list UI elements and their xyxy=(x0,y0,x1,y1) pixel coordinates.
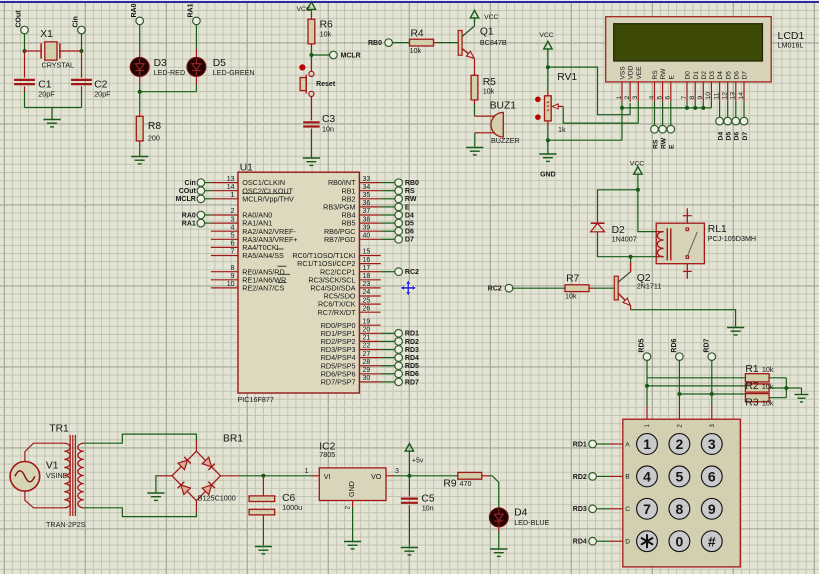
svg-text:2: 2 xyxy=(624,96,631,100)
svg-text:D4: D4 xyxy=(405,212,414,219)
wire LCD VEE down xyxy=(637,102,639,123)
U1 SS overline xyxy=(276,248,283,250)
svg-text:MCLR: MCLR xyxy=(341,53,361,60)
terminal D5 xyxy=(724,117,732,125)
U1 pin 14 OSC2/CLKOUT xyxy=(211,190,238,192)
wire wiper to LCD VEE xyxy=(563,106,638,123)
svg-text:33: 33 xyxy=(363,176,371,183)
terminal E xyxy=(667,125,675,133)
svg-text:10k: 10k xyxy=(762,365,774,374)
wire to terminal RD6 xyxy=(381,373,396,375)
wire Q1 emitter to R5 xyxy=(474,59,476,76)
U1 pin 34 RB1 xyxy=(359,190,380,192)
source V1 VSINE xyxy=(10,462,40,492)
capacitor C3 xyxy=(310,119,312,120)
svg-text:PCJ-105D3MH: PCJ-105D3MH xyxy=(708,234,756,243)
ground Q2 emitter xyxy=(727,327,744,329)
terminal D5 (U1 right) xyxy=(395,219,403,227)
wire LCD D7 to terminal xyxy=(743,102,745,118)
svg-text:D5: D5 xyxy=(405,221,414,228)
svg-text:20pF: 20pF xyxy=(94,90,111,99)
svg-text:R7: R7 xyxy=(566,274,579,285)
cursor crosshair xyxy=(402,281,415,294)
ground crystal xyxy=(43,119,60,121)
resistor R1 xyxy=(745,374,769,382)
svg-text:D7: D7 xyxy=(742,71,749,80)
terminal RA0 xyxy=(136,17,144,25)
svg-text:6: 6 xyxy=(231,241,235,248)
capacitor C1 xyxy=(24,51,26,78)
node B coil bottom junction xyxy=(629,255,633,259)
svg-text:R8: R8 xyxy=(148,121,161,132)
wire R1-R3 tie xyxy=(769,377,786,379)
LCD VSS wire down xyxy=(621,102,623,140)
terminal RD7 xyxy=(708,353,716,361)
terminal RC2 (relay drive) xyxy=(505,284,513,292)
svg-text:U1: U1 xyxy=(240,162,253,173)
svg-text:39: 39 xyxy=(363,224,371,231)
U1 pin 27 RD4/PSP4 xyxy=(359,357,380,359)
svg-text:D6: D6 xyxy=(733,71,740,80)
terminal Cin xyxy=(78,26,86,34)
svg-text:13: 13 xyxy=(730,92,737,100)
keypad button 3 xyxy=(701,434,722,455)
svg-text:3: 3 xyxy=(632,96,639,100)
IC2 pin 3 xyxy=(386,475,394,477)
svg-text:RW: RW xyxy=(660,137,667,149)
svg-text:18: 18 xyxy=(363,273,371,280)
diode D2 1N4007 xyxy=(597,220,599,224)
U1 pin 33 RB0/INT xyxy=(359,182,380,184)
svg-text:RC2: RC2 xyxy=(488,286,502,293)
svg-text:RB0: RB0 xyxy=(368,40,382,47)
U1 pin 1 MCLR/Vpp/THV xyxy=(211,198,238,200)
terminal D4 xyxy=(716,117,724,125)
U1 pin 23 RC4/SDI/SDA xyxy=(359,287,380,289)
svg-text:11: 11 xyxy=(713,92,720,99)
terminal COut (U1) xyxy=(197,187,205,195)
node A relay-vcc junction xyxy=(636,188,640,192)
svg-text:8: 8 xyxy=(231,265,235,272)
svg-text:5: 5 xyxy=(231,233,235,240)
svg-text:4: 4 xyxy=(648,96,655,100)
wire to terminal RC2 xyxy=(381,271,396,273)
U1 MCLR overline xyxy=(242,192,290,194)
svg-text:14: 14 xyxy=(738,92,745,100)
terminal RD3 (U1 right) xyxy=(395,346,403,354)
svg-text:10k: 10k xyxy=(410,46,422,55)
U1 RD WR CS overlines xyxy=(278,265,287,267)
keypad button star xyxy=(637,531,658,552)
terminal RC2 (U1 right) xyxy=(395,268,403,276)
svg-text:RB7/PGD: RB7/PGD xyxy=(324,235,356,244)
diode D4 LED-BLUE xyxy=(489,508,508,527)
U1 pin 28 RD5/PSP5 xyxy=(359,365,380,367)
U1 pin 19 RD0/PSP0 xyxy=(359,324,380,326)
svg-text:C: C xyxy=(625,506,630,513)
svg-text:RS: RS xyxy=(652,139,659,149)
U1 pin 30 RD7/PSP7 xyxy=(359,381,380,383)
wire LCD RW to terminal xyxy=(662,102,664,126)
U1 pin 4 RA2/AN2/VREF- xyxy=(211,230,238,232)
svg-text:LM016L: LM016L xyxy=(778,41,804,50)
wire to terminal RD3 xyxy=(381,349,396,351)
terminal RA1 xyxy=(193,17,201,25)
terminal RD3 xyxy=(589,505,597,513)
U1 pin 7 RA5/AN4/SS xyxy=(211,255,238,257)
svg-text:RS: RS xyxy=(652,70,659,80)
terminal RD4 (U1 right) xyxy=(395,354,403,362)
svg-text:LED-GREEN: LED-GREEN xyxy=(213,68,255,77)
svg-text:10n: 10n xyxy=(422,503,434,512)
svg-text:RD2: RD2 xyxy=(573,474,587,481)
bridge diode bottom-right xyxy=(202,485,211,495)
wire keypad column 2 xyxy=(678,360,680,406)
wire to terminal E xyxy=(381,206,396,208)
wire VDD routing xyxy=(548,67,630,115)
U1 pin 22 RD3/PSP3 xyxy=(359,349,380,351)
capacitor C6 1000u xyxy=(262,476,264,496)
U1 pin 2 RA0/AN0 xyxy=(211,214,238,216)
svg-text:RD7/PSP7: RD7/PSP7 xyxy=(321,378,356,387)
svg-text:RE2/AN7/CS: RE2/AN7/CS xyxy=(242,284,284,293)
keypad KEYPAD-PHONE body xyxy=(623,419,741,567)
svg-text:470: 470 xyxy=(460,479,472,488)
svg-text:RD3: RD3 xyxy=(573,506,587,513)
svg-text:5: 5 xyxy=(676,469,684,485)
svg-text:38: 38 xyxy=(363,216,371,223)
wire to terminal D4 xyxy=(381,214,396,216)
terminal RD7 (U1 right) xyxy=(395,378,403,386)
push button Reset xyxy=(310,55,312,62)
svg-text:+5v: +5v xyxy=(412,458,424,465)
wire D3 bottom xyxy=(139,76,141,84)
svg-text:RA0: RA0 xyxy=(182,212,196,219)
regulator IC2 7805 xyxy=(319,468,386,501)
keypad button 5 xyxy=(669,466,690,487)
svg-text:VO: VO xyxy=(371,472,382,481)
IC2 pin 2 to ground xyxy=(352,501,354,508)
wire RA1 to D5 xyxy=(195,24,197,49)
svg-text:29: 29 xyxy=(363,367,371,374)
wire V1 to primary bottom xyxy=(25,491,64,508)
keypad button 0 xyxy=(669,531,690,552)
wire to terminal RW xyxy=(381,198,396,200)
keypad row pin RD4 xyxy=(610,540,623,542)
svg-text:Reset: Reset xyxy=(316,81,336,88)
svg-text:40: 40 xyxy=(363,233,371,240)
U1 pin 29 RD6/PSP6 xyxy=(359,373,380,375)
svg-text:R9: R9 xyxy=(443,479,456,490)
svg-text:8: 8 xyxy=(676,501,684,517)
svg-text:D5: D5 xyxy=(725,71,732,80)
svg-text:1: 1 xyxy=(616,96,623,100)
svg-text:D1: D1 xyxy=(693,71,700,80)
svg-text:24: 24 xyxy=(363,289,371,296)
svg-text:Q1: Q1 xyxy=(480,27,494,38)
capacitor C2 xyxy=(81,51,83,78)
wire V1 to primary top xyxy=(25,443,64,461)
terminal RS xyxy=(651,125,659,133)
wire pot bottom to LCD VSS xyxy=(548,139,622,141)
terminal E (U1 right) xyxy=(395,203,403,211)
svg-text:VEE: VEE xyxy=(636,66,643,80)
wire LCD E to terminal xyxy=(670,102,672,126)
svg-text:E: E xyxy=(405,204,410,211)
wire D4 to ground xyxy=(498,527,500,532)
U1 pin 21 RD2/PSP2 xyxy=(359,340,380,342)
svg-text:R1: R1 xyxy=(745,364,758,375)
wire to terminal Cin xyxy=(204,182,211,184)
svg-text:VDD: VDD xyxy=(628,65,635,79)
U1 pin 13 OSC1/CLKIN xyxy=(211,182,238,184)
svg-text:200: 200 xyxy=(148,134,160,143)
svg-text:LED-BLUE: LED-BLUE xyxy=(514,518,549,527)
node LED junction xyxy=(138,90,142,94)
wire to terminal RD1 xyxy=(381,332,396,334)
terminal RD1 xyxy=(589,440,597,448)
svg-text:3: 3 xyxy=(231,216,235,223)
svg-text:14: 14 xyxy=(227,184,235,191)
svg-text:BUZ1: BUZ1 xyxy=(490,101,517,112)
svg-text:1N4007: 1N4007 xyxy=(612,235,637,244)
svg-text:D5: D5 xyxy=(726,132,733,141)
svg-text:RD1: RD1 xyxy=(405,331,419,338)
U1 pin 35 RB2 xyxy=(359,198,380,200)
IC2 pin 1 xyxy=(312,475,320,477)
wire bridge left to ground xyxy=(159,475,173,477)
svg-text:LED-RED: LED-RED xyxy=(154,68,186,77)
node resistor tie xyxy=(784,386,788,390)
svg-text:2: 2 xyxy=(231,208,235,215)
wire row R1 xyxy=(647,377,745,379)
U1 pin 18 RC3/SCK/SCL xyxy=(359,279,380,281)
wire node A to coil top xyxy=(638,190,656,232)
wire R5 to buzzer xyxy=(474,100,476,105)
node C6 junction xyxy=(261,474,265,478)
terminal RW xyxy=(659,125,667,133)
wire to terminal COut xyxy=(204,190,211,192)
wire row R2 xyxy=(647,385,745,387)
svg-text:2: 2 xyxy=(345,506,352,510)
terminal RS (U1 right) xyxy=(395,187,403,195)
svg-text:4: 4 xyxy=(643,469,651,485)
svg-text:Cin: Cin xyxy=(73,16,80,27)
svg-text:RD4: RD4 xyxy=(573,539,587,546)
relay pin bottom stub xyxy=(686,264,688,279)
U1 pin 9 RE1/AN6/WR xyxy=(211,279,238,281)
wire C3 to ground xyxy=(310,132,312,158)
svg-text:RC7/RX/DT: RC7/RX/DT xyxy=(318,308,357,317)
svg-text:C3: C3 xyxy=(322,114,335,125)
keypad button 6 xyxy=(701,466,722,487)
keypad button 4 xyxy=(637,466,658,487)
svg-text:27: 27 xyxy=(363,351,371,358)
svg-text:34: 34 xyxy=(363,184,371,191)
wire LCD D4 to terminal xyxy=(719,102,721,118)
node VSS bus junction xyxy=(620,106,624,110)
svg-text:RD5: RD5 xyxy=(405,363,419,370)
wire tie to ground xyxy=(786,387,801,389)
wire LED cathode bus xyxy=(140,91,197,93)
svg-text:1: 1 xyxy=(231,192,235,199)
bridge BR1 B125C1000 xyxy=(172,451,196,476)
potentiometer RV1 xyxy=(545,96,552,121)
wire VCC to node A xyxy=(637,178,639,190)
terminal RD2 xyxy=(589,473,597,481)
node col1-R2 xyxy=(645,384,649,388)
terminal RD5 (U1 right) xyxy=(395,362,403,370)
resistor R5 xyxy=(471,75,478,100)
U1 pin 5 RA3/AN3/VREF+ xyxy=(211,238,238,240)
svg-text:9: 9 xyxy=(231,273,235,280)
wire to terminal D6 xyxy=(381,230,396,232)
wire Q2 collector to node B xyxy=(630,262,632,272)
U1 pin 40 RB7/PGD xyxy=(359,238,380,240)
svg-text:D4: D4 xyxy=(717,71,724,80)
resistor R6 xyxy=(310,13,312,19)
wire pot to GND xyxy=(547,140,549,153)
svg-text:R3: R3 xyxy=(745,398,758,409)
bridge diode bottom-left xyxy=(181,485,190,495)
svg-text:COut: COut xyxy=(16,10,23,28)
LCD LCD1 LM016L body xyxy=(606,17,772,82)
node pot bottom junction xyxy=(546,138,550,142)
svg-text:RD4: RD4 xyxy=(405,355,419,362)
transistor Q2 xyxy=(614,276,618,300)
svg-text:13: 13 xyxy=(227,176,235,183)
svg-text:16: 16 xyxy=(363,257,371,264)
terminal RD2 (U1 right) xyxy=(395,338,403,346)
wire to terminal RB0 xyxy=(381,182,396,184)
ground C5 xyxy=(401,547,418,549)
svg-text:Cin: Cin xyxy=(185,180,196,187)
wire keypad column 1 xyxy=(646,360,648,406)
svg-text:TR1: TR1 xyxy=(49,424,69,435)
svg-text:10k: 10k xyxy=(320,30,332,39)
svg-text:VCC: VCC xyxy=(539,32,553,39)
svg-text:VCC: VCC xyxy=(630,161,644,168)
ground buzzer xyxy=(466,147,483,149)
svg-text:E: E xyxy=(668,75,675,80)
svg-text:10n: 10n xyxy=(322,125,334,134)
wire RC2 to R7 xyxy=(512,287,565,289)
ground R8 xyxy=(131,156,148,158)
terminal RB0 (U1 right) xyxy=(395,179,403,187)
wire keypad column 3 xyxy=(711,360,713,406)
svg-text:B: B xyxy=(625,474,629,481)
terminal RD5 xyxy=(643,353,651,361)
svg-text:RD3: RD3 xyxy=(405,347,419,354)
svg-text:6: 6 xyxy=(665,96,672,100)
power VCC Q1 xyxy=(474,20,476,27)
svg-text:1k: 1k xyxy=(558,125,566,134)
U1 pin 10 RE2/AN7/CS xyxy=(211,287,238,289)
ground bridge xyxy=(147,492,164,494)
svg-text:30: 30 xyxy=(363,375,371,382)
svg-text:#: # xyxy=(708,533,716,549)
wire LCD ground bus D0-D3 xyxy=(622,107,711,109)
svg-text:35: 35 xyxy=(363,192,371,199)
svg-text:17: 17 xyxy=(363,265,371,272)
svg-text:10k: 10k xyxy=(762,399,774,408)
LCD screen xyxy=(614,24,763,61)
svg-text:R4: R4 xyxy=(411,28,424,39)
wire bridge output xyxy=(220,475,240,477)
wire R6 to node xyxy=(310,44,312,49)
svg-text:RA0: RA0 xyxy=(131,3,138,17)
svg-text:VCC: VCC xyxy=(484,14,498,21)
terminal RD6 xyxy=(676,353,684,361)
svg-text:21: 21 xyxy=(363,335,371,342)
terminal RD6 (U1 right) xyxy=(395,370,403,378)
wire to MCLR terminal xyxy=(311,54,330,56)
svg-text:BUZZER: BUZZER xyxy=(491,136,520,145)
keypad row pin RD1 xyxy=(610,443,623,445)
wire Q2 emitter to ground xyxy=(630,306,632,310)
svg-text:20: 20 xyxy=(363,327,371,334)
svg-text:10k: 10k xyxy=(565,291,577,300)
U1 pin 36 RB3/PGM xyxy=(359,206,380,208)
bridge diode top-right xyxy=(202,457,211,467)
svg-text:MCLR/Vpp/THV: MCLR/Vpp/THV xyxy=(242,194,294,203)
resistor R9 xyxy=(458,472,482,479)
svg-text:1: 1 xyxy=(305,468,309,475)
terminal D4 (U1 right) xyxy=(395,211,403,219)
node col2-R3 xyxy=(677,392,681,396)
U1 pin 20 RD1/PSP1 xyxy=(359,332,380,334)
microcontroller U1 PIC16F877 body xyxy=(238,172,359,393)
svg-text:A: A xyxy=(625,441,630,448)
U1 pin 16 RC1/T1OSI/CCP2 xyxy=(359,263,380,265)
U1 pin 24 RC5/SDO xyxy=(359,295,380,297)
keypad button 9 xyxy=(701,498,722,519)
power +5v arrow xyxy=(405,444,413,452)
svg-text:RD1: RD1 xyxy=(573,441,587,448)
svg-text:10k: 10k xyxy=(483,87,495,96)
wire to terminal D5 xyxy=(381,222,396,224)
svg-text:D: D xyxy=(625,539,630,546)
svg-text:RC2: RC2 xyxy=(405,269,419,276)
U1 pin 38 RB5 xyxy=(359,222,380,224)
svg-text:B125C1000: B125C1000 xyxy=(198,493,236,502)
svg-text:V1: V1 xyxy=(46,461,59,472)
terminal D7 (U1 right) xyxy=(395,236,403,244)
terminal RA1 (U1) xyxy=(197,219,205,227)
svg-text:RA1: RA1 xyxy=(182,221,196,228)
svg-text:RD5: RD5 xyxy=(639,338,646,352)
svg-text:4: 4 xyxy=(231,224,235,231)
svg-text:TRAN-2P2S: TRAN-2P2S xyxy=(46,520,86,529)
terminal MCLR (U1) xyxy=(197,195,205,203)
svg-text:25: 25 xyxy=(363,297,371,304)
svg-text:10k: 10k xyxy=(762,382,774,391)
terminal RB0 (buzzer drive) xyxy=(385,39,393,47)
svg-text:X1: X1 xyxy=(40,29,53,40)
resistor R4 xyxy=(410,39,434,46)
svg-text:3: 3 xyxy=(708,436,716,452)
node col3-R3 xyxy=(710,392,714,396)
svg-text:12: 12 xyxy=(722,92,729,100)
svg-text:D7: D7 xyxy=(405,237,414,244)
transistor Q1 xyxy=(458,31,462,56)
wire secondary bottom to bridge xyxy=(84,508,197,517)
svg-text:1: 1 xyxy=(643,436,651,452)
svg-text:7805: 7805 xyxy=(319,450,335,459)
wire R9 to D4 xyxy=(482,475,490,477)
wire to terminal MCLR xyxy=(204,198,211,200)
wire R7 to Q2 base xyxy=(589,287,594,289)
